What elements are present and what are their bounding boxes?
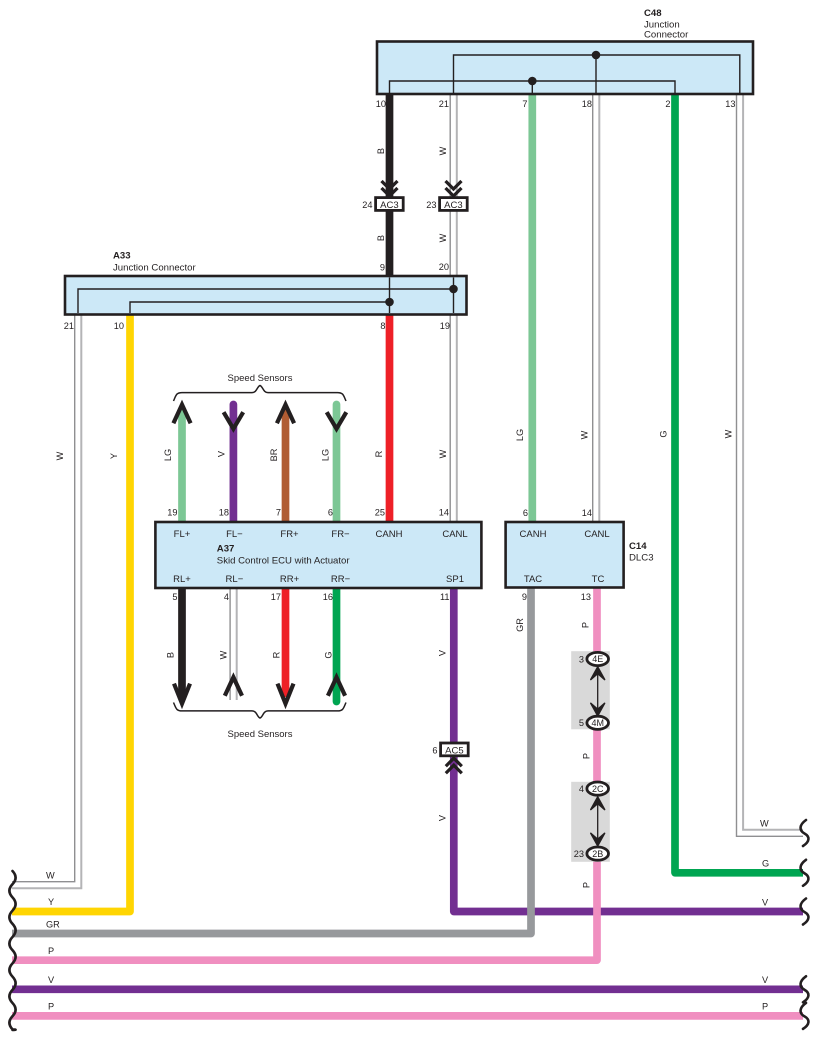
svg-text:Speed Sensors: Speed Sensors <box>228 373 293 384</box>
wire Y from A33 pin 10 to left edge <box>12 314 130 912</box>
svg-text:AC3: AC3 <box>380 200 398 211</box>
A33 junction dot pin 19 <box>449 285 458 294</box>
arrow down to 2B <box>591 833 605 846</box>
wire G speed sensor RR- pin 16 <box>333 587 341 702</box>
svg-text:21: 21 <box>439 99 449 109</box>
svg-text:P: P <box>762 1002 768 1012</box>
svg-text:14: 14 <box>439 508 449 518</box>
wire P from 2B to left edge <box>12 860 597 960</box>
svg-text:4: 4 <box>579 784 584 794</box>
svg-text:7: 7 <box>522 99 527 109</box>
wire W from AC3 pin 23 to A33 pin 20 <box>450 211 457 278</box>
wire P from C14 TC pin 13 to connector 4E <box>593 587 601 654</box>
svg-text:CANH: CANH <box>376 529 403 540</box>
svg-text:5: 5 <box>579 718 584 728</box>
arrow up FL+ <box>173 405 190 424</box>
svg-text:RL−: RL− <box>226 574 244 585</box>
junction connector C48 box <box>377 42 753 95</box>
wire P from 4M to 2C <box>593 728 601 783</box>
arrow into AC3 pin 23 <box>446 181 462 196</box>
svg-text:B: B <box>376 235 386 241</box>
svg-text:18: 18 <box>219 508 229 518</box>
svg-text:AC5: AC5 <box>445 745 463 756</box>
svg-text:4M: 4M <box>591 718 604 728</box>
svg-text:B: B <box>166 652 176 658</box>
svg-text:2: 2 <box>665 99 670 109</box>
svg-text:CANL: CANL <box>442 529 467 540</box>
arrow up RR- <box>328 677 345 696</box>
squiggle break W right <box>801 820 809 846</box>
svg-text:TC: TC <box>592 574 605 585</box>
connector 4M pin 5 <box>587 716 609 729</box>
svg-text:LG: LG <box>163 449 173 461</box>
wire B from C48 pin 10 to AC3 pin 24 <box>386 93 394 198</box>
wire V from A37 SP1 pin 11 to AC5 <box>450 587 458 744</box>
svg-text:Speed Sensors: Speed Sensors <box>228 729 293 740</box>
svg-text:W: W <box>724 429 734 438</box>
svg-text:23: 23 <box>574 849 584 859</box>
svg-text:V: V <box>217 450 227 457</box>
arrow down RR+ <box>278 684 294 704</box>
C48 internal bus CANL (pins 21-18-13) <box>454 55 740 93</box>
arrow up to 4E <box>591 667 605 680</box>
svg-text:C14: C14 <box>629 541 647 552</box>
wire GR from C14 TAC pin 9 to left edge <box>12 587 531 934</box>
svg-text:C48: C48 <box>644 8 662 19</box>
wire B speed sensor RL+ pin 5 <box>178 587 186 699</box>
wire W from A33 pin 19 to A37 CANL pin 14 <box>450 314 457 523</box>
svg-text:LG: LG <box>321 449 331 461</box>
svg-text:TAC: TAC <box>524 574 542 585</box>
wire R from A33 pin 8 to A37 CANH pin 25 <box>386 314 394 523</box>
wire B from AC3 pin 24 to A33 pin 9 <box>386 211 394 278</box>
svg-text:4E: 4E <box>592 654 603 664</box>
wire R speed sensor RR+ pin 17 <box>282 587 290 697</box>
svg-text:13: 13 <box>581 592 591 602</box>
svg-text:G: G <box>324 651 334 658</box>
svg-text:9: 9 <box>522 592 527 602</box>
svg-text:10: 10 <box>114 321 124 331</box>
arrow down to 4M <box>591 703 605 716</box>
svg-text:CANH: CANH <box>520 529 547 540</box>
skid control ECU A37 box <box>155 522 481 588</box>
wire LG speed sensor FR- pin 6 <box>333 405 341 524</box>
svg-text:19: 19 <box>440 321 450 331</box>
svg-text:V: V <box>762 898 769 908</box>
connector block 4E-4M <box>571 651 610 729</box>
svg-text:23: 23 <box>426 200 436 210</box>
A33 junction dot pin 8 <box>385 298 394 307</box>
svg-text:AC3: AC3 <box>444 200 462 211</box>
wire G from C48 pin 2 to right edge <box>675 93 803 873</box>
arrow up RL- <box>225 677 242 696</box>
wire W from C48 pin 13 to right edge <box>737 93 804 836</box>
svg-text:2C: 2C <box>592 784 604 794</box>
svg-text:FR+: FR+ <box>280 529 299 540</box>
svg-text:7: 7 <box>276 508 281 518</box>
svg-text:RR+: RR+ <box>280 574 300 585</box>
wire W from A33 pin 21 to left edge <box>12 314 81 888</box>
wire W speed sensor RL- pin 4 <box>230 587 237 700</box>
C48 junction dot pin 18 <box>592 51 601 60</box>
arrow into AC5 <box>446 758 462 773</box>
svg-text:13: 13 <box>725 99 735 109</box>
wire V from AC5 to right edge <box>454 756 803 912</box>
speed sensors top brace <box>174 386 347 402</box>
svg-text:Skid Control ECU with Actuator: Skid Control ECU with Actuator <box>217 556 351 567</box>
svg-text:W: W <box>46 871 55 881</box>
svg-text:14: 14 <box>582 508 592 518</box>
arrow into AC3 pin 24 <box>382 181 398 196</box>
svg-text:17: 17 <box>271 592 281 602</box>
svg-text:6: 6 <box>432 745 437 755</box>
svg-text:W: W <box>760 819 769 829</box>
svg-text:R: R <box>374 450 384 457</box>
svg-text:Y: Y <box>48 897 54 907</box>
connector AC3 pin 23 box <box>440 198 468 211</box>
svg-text:P: P <box>581 622 591 628</box>
squiggle break P bottom-right <box>801 1003 809 1029</box>
squiggle break V bottom-right <box>801 976 809 1002</box>
svg-text:FR−: FR− <box>331 529 350 540</box>
svg-text:GR: GR <box>46 920 60 930</box>
svg-text:W: W <box>438 233 448 242</box>
svg-text:P: P <box>582 753 592 759</box>
wire V horizontal bus at bottom <box>12 985 803 993</box>
junction connector A33 box <box>65 276 467 315</box>
arrow down FL- <box>224 412 244 429</box>
svg-text:8: 8 <box>380 321 385 331</box>
arrow up to 2C <box>591 797 605 810</box>
break wavy line left edge <box>9 871 15 1030</box>
svg-text:V: V <box>438 814 448 821</box>
svg-text:B: B <box>376 148 386 154</box>
svg-text:6: 6 <box>328 508 333 518</box>
svg-text:9: 9 <box>380 263 385 273</box>
svg-text:18: 18 <box>582 99 592 109</box>
svg-text:SP1: SP1 <box>446 574 464 585</box>
svg-text:RL+: RL+ <box>173 574 191 585</box>
svg-text:W: W <box>438 449 448 458</box>
svg-text:V: V <box>48 975 55 985</box>
svg-text:BR: BR <box>269 448 279 461</box>
svg-text:G: G <box>762 859 769 869</box>
speed sensors bottom brace <box>174 703 347 719</box>
svg-text:Y: Y <box>109 453 119 459</box>
svg-text:CANL: CANL <box>584 529 609 540</box>
svg-text:3: 3 <box>579 654 584 664</box>
wire BR speed sensor FR+ pin 7 <box>282 408 290 523</box>
wire LG from C48 pin 7 to C14 CANH pin 6 <box>528 93 536 523</box>
DLC3 C14 box <box>506 522 624 588</box>
svg-text:V: V <box>762 975 769 985</box>
connector 2B pin 23 <box>587 847 609 860</box>
2C-2B link line <box>597 802 599 840</box>
connector 2C pin 4 <box>587 782 609 795</box>
C48 internal bus CANH (pins 10-7-2) <box>390 81 676 93</box>
arrow up FR+ <box>277 405 294 424</box>
svg-text:LG: LG <box>515 429 525 441</box>
svg-text:P: P <box>582 882 592 888</box>
wire W from C48 pin 21 to AC3 pin 23 <box>450 93 457 198</box>
arrow down FR- <box>327 412 347 429</box>
C48 junction dot pin 7 <box>528 77 537 86</box>
svg-text:FL+: FL+ <box>174 529 191 540</box>
svg-text:21: 21 <box>64 321 74 331</box>
svg-text:Junction Connector: Junction Connector <box>113 263 196 274</box>
connector 4E pin 3 <box>587 652 609 665</box>
wire LG speed sensor FL+ pin 19 <box>178 408 186 523</box>
svg-text:GR: GR <box>515 618 525 632</box>
wire P horizontal bus at bottom <box>12 1012 803 1020</box>
svg-text:24: 24 <box>362 200 372 210</box>
svg-text:W: W <box>219 650 229 659</box>
svg-text:G: G <box>659 430 669 437</box>
svg-text:A37: A37 <box>217 544 235 555</box>
svg-text:V: V <box>438 649 448 656</box>
svg-text:10: 10 <box>376 99 386 109</box>
svg-text:Connector: Connector <box>644 30 689 41</box>
squiggle break V right <box>801 899 809 925</box>
svg-text:5: 5 <box>172 592 177 602</box>
svg-text:DLC3: DLC3 <box>629 553 654 564</box>
svg-text:16: 16 <box>323 592 333 602</box>
wire W from C48 pin 18 to C14 CANL pin 14 <box>593 93 600 523</box>
svg-text:RR−: RR− <box>331 574 351 585</box>
connector AC3 pin 24 box <box>376 198 404 211</box>
svg-text:W: W <box>580 430 590 439</box>
svg-text:R: R <box>272 651 282 658</box>
wire V speed sensor FL- pin 18 <box>230 405 238 524</box>
connector AC5 pin 6 box <box>441 743 469 756</box>
svg-text:P: P <box>48 1002 54 1012</box>
squiggle break G right <box>801 860 809 886</box>
svg-text:11: 11 <box>440 592 450 602</box>
A33 internal bus CANL (pins 21-20-19) <box>78 289 454 313</box>
svg-text:25: 25 <box>375 508 385 518</box>
svg-text:P: P <box>48 946 54 956</box>
svg-text:2B: 2B <box>592 849 603 859</box>
arrow down RL+ <box>174 684 190 704</box>
svg-text:20: 20 <box>439 262 449 272</box>
connector block 2C-2B <box>571 782 610 862</box>
A33 internal bus CANH (pins 10-9-8) <box>130 302 390 313</box>
svg-text:W: W <box>438 146 448 155</box>
svg-text:FL−: FL− <box>226 529 243 540</box>
svg-text:6: 6 <box>523 508 528 518</box>
svg-text:19: 19 <box>167 508 177 518</box>
svg-text:W: W <box>55 451 65 460</box>
svg-text:4: 4 <box>224 592 229 602</box>
svg-text:A33: A33 <box>113 251 131 262</box>
4E-4M link line <box>597 672 599 710</box>
